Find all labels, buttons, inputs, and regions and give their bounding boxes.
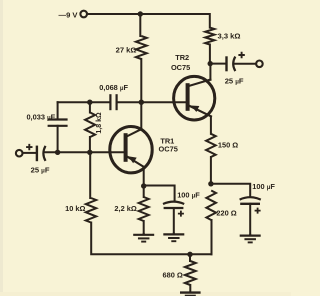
wire feedback line left segment — [58, 101, 110, 103]
capacitor 25uF output plus plate — [225, 56, 227, 71]
wire 0.033 branch top — [57, 102, 59, 119]
node 27k / TR1 collector / TR2 base — [139, 100, 144, 105]
label plus input cap — [26, 144, 32, 150]
node 1.8k top — [87, 100, 92, 105]
transistor TR2 emitter arrow (PNP) — [191, 106, 200, 113]
svg-text:100 μF: 100 μF — [252, 182, 275, 191]
capacitor 0,068uF left plate — [109, 94, 111, 110]
wire input terminal to cap — [23, 152, 37, 154]
wire top rail — [87, 14, 210, 28]
capacitor 25uF input plus plate — [36, 146, 38, 162]
capacitor 0,033uF bottom plate — [48, 125, 68, 127]
svg-text:680 Ω: 680 Ω — [162, 270, 182, 279]
wire 100uF-1 to ground — [173, 208, 175, 234]
svg-text:0,068 μF: 0,068 μF — [99, 83, 128, 92]
wire 100uF-2 to ground — [249, 204, 251, 235]
resistor 220 Ohm — [206, 191, 216, 221]
wire 27k top — [139, 14, 141, 36]
svg-text:3,3 kΩ: 3,3 kΩ — [218, 31, 241, 40]
capacitor 0,033uF top plate — [48, 118, 68, 120]
svg-text:220 Ω: 220 Ω — [216, 208, 236, 217]
ground under 680 (clipped) — [180, 291, 201, 293]
resistor 680 Ohm — [185, 261, 196, 285]
svg-text:—9 V: —9 V — [59, 10, 79, 19]
wire TR1 collector — [140, 102, 142, 129]
wire 10k bottom + bottom rail — [91, 223, 211, 255]
wire TR1 emitter — [143, 167, 145, 186]
svg-text:OC75: OC75 — [171, 63, 190, 72]
capacitor 100uF-2 curved plate — [240, 197, 261, 199]
node TR1 emitter — [141, 183, 146, 188]
resistor 3,3 kOhm — [205, 28, 214, 45]
svg-text:25 μF: 25 μF — [225, 77, 244, 86]
label plus output cap — [238, 52, 244, 58]
terminal -9V supply — [80, 11, 87, 18]
wire emitter node to C bypass — [144, 186, 175, 202]
capacitor 100uF-1 plus plate — [164, 207, 184, 209]
resistor 2,2 kOhm — [139, 197, 149, 221]
svg-text:100 μF: 100 μF — [177, 190, 200, 199]
svg-text:0,033 μF: 0,033 μF — [26, 112, 55, 121]
svg-text:25 μF: 25 μF — [31, 166, 50, 175]
resistor 27 kOhm — [136, 36, 147, 59]
capacitor 100uF-2 plus plate — [240, 203, 260, 205]
wire collector node to C out — [210, 63, 226, 65]
wire TR2 collector — [209, 64, 211, 80]
node bottom rail / 680 — [187, 252, 192, 257]
svg-text:TR2: TR2 — [175, 53, 189, 62]
wire 3.3k bottom — [209, 45, 211, 64]
wire 0.068 cap to TR2 base — [117, 101, 186, 103]
transistor TR2 collector diagonal — [189, 80, 211, 86]
wire 10k top — [89, 152, 91, 198]
ground under 2.2k — [143, 233, 145, 235]
node TR2 collector / output — [208, 61, 213, 66]
transistor TR1 emitter diagonal — [126, 156, 143, 167]
transistor TR1 emitter arrow (PNP) — [128, 156, 137, 163]
wire C out to terminal — [234, 63, 256, 65]
node top rail / R 27k junction — [138, 11, 143, 16]
capacitor 25uF input curved plate — [43, 146, 45, 161]
label plus 100uF-2 — [255, 208, 261, 214]
wire node to 100uF-2 — [211, 184, 250, 197]
resistor 10 kOhm — [86, 198, 96, 223]
label plus 100uF-1 — [178, 211, 184, 217]
svg-text:1,8 kΩ: 1,8 kΩ — [96, 112, 103, 134]
resistor 150 Ohm — [206, 134, 216, 157]
wire 1.8k bottom — [89, 137, 91, 152]
node input / 0.033 junction — [55, 150, 60, 155]
transistor TR2 OC75 circle — [174, 76, 215, 120]
terminal output — [256, 61, 263, 68]
capacitor 100uF-1 curved plate — [163, 202, 184, 204]
resistor 1,8 kOhm — [85, 113, 95, 138]
transistor TR1 base bar — [124, 133, 128, 162]
transistor TR1 collector diagonal — [127, 129, 142, 136]
terminal input — [16, 150, 23, 157]
wire 1.8k top — [89, 102, 91, 112]
wire 2.2k top — [143, 186, 145, 197]
svg-text:OC75: OC75 — [159, 145, 178, 154]
svg-text:10 kΩ: 10 kΩ — [65, 204, 85, 213]
transistor TR2 emitter diagonal — [189, 106, 211, 117]
node 150/220/100uF junction — [208, 181, 213, 186]
transistor TR1 OC75 circle — [110, 127, 152, 173]
ground under 100uF-2 — [249, 234, 251, 236]
wire 2.2k bottom — [143, 221, 145, 234]
svg-text:150 Ω: 150 Ω — [218, 140, 238, 149]
wire input cap to TR1 base — [44, 151, 123, 153]
wire TR2 emitter to 150 — [210, 116, 212, 133]
wire 680 top — [189, 254, 191, 261]
wire 150 bottom — [210, 157, 212, 184]
ground under 100uF-1 — [173, 233, 175, 235]
capacitor 25uF output curved plate — [233, 57, 235, 72]
capacitor 0,068uF right plate — [115, 94, 117, 110]
svg-text:27 kΩ: 27 kΩ — [116, 45, 137, 54]
wire 220 bottom to bottom rail — [211, 220, 213, 254]
transistor TR2 base bar — [186, 83, 190, 111]
node base bias junction — [87, 150, 92, 155]
wire 0.033 bottom to input node — [57, 126, 59, 153]
wire 27k bottom to TR1 collector node — [140, 59, 142, 102]
wire 680 bottom — [189, 285, 191, 292]
svg-text:2,2 kΩ: 2,2 kΩ — [114, 204, 136, 213]
